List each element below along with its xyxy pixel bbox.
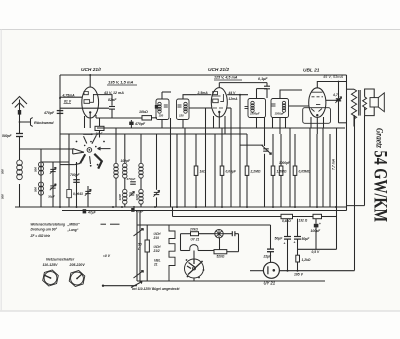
wire mid vertical x290	[289, 128, 291, 207]
wire mid horizontal y134	[60, 133, 247, 135]
mains selector knob B	[69, 271, 85, 287]
wire mid vertical x330	[329, 134, 331, 207]
svg-text:110-125V: 110-125V	[43, 263, 59, 267]
IF transformer T1 box B	[177, 99, 190, 120]
lamp drop	[219, 238, 221, 250]
svg-text:27kΩ: 27kΩ	[189, 227, 198, 231]
page left edge shading	[0, 30, 2, 312]
capacitor 0,1uF	[264, 85, 270, 87]
tube3 bottom box	[303, 108, 331, 124]
IF transformer T2 box B	[271, 99, 289, 118]
band switch S1 arm SW	[80, 154, 85, 163]
page top edge rule	[0, 29, 400, 31]
svg-text:81 V: 81 V	[64, 100, 72, 104]
band switch S1 contact dots	[76, 141, 78, 143]
capacitor T1a	[164, 104, 168, 106]
wire mid horizontal y128	[97, 127, 345, 129]
resistor R x295	[293, 166, 297, 175]
mains link arrow	[131, 282, 142, 288]
wire chassis bus upper	[15, 206, 347, 208]
svg-text:+: +	[284, 242, 286, 246]
IF transformer T2 coil B	[282, 101, 285, 104]
svg-text:1500pF: 1500pF	[275, 112, 285, 116]
svg-text:0,0643: 0,0643	[73, 192, 83, 196]
resistor R x222	[220, 166, 224, 175]
band switch S1 arrow	[98, 147, 111, 150]
capacitor 470pF c	[130, 181, 136, 183]
voltage selector disc	[185, 259, 204, 278]
inductor L-ant2 x116	[114, 163, 118, 167]
svg-text:UCH 21/2: UCH 21/2	[208, 67, 229, 73]
wire mid vertical x215	[214, 134, 216, 207]
wire osc horizontal y149	[20, 148, 75, 150]
svg-text:UY 21: UY 21	[264, 281, 276, 286]
wire tube3 pin mid	[316, 117, 318, 134]
capacitor T1 blob	[155, 105, 158, 109]
svg-text:100pF: 100pF	[121, 159, 132, 163]
band switch S1 left funnel	[73, 149, 84, 153]
mains switch arrow 1	[134, 229, 144, 237]
wire T2a top	[256, 89, 258, 99]
UY21 loop left	[180, 234, 182, 251]
svg-text:Rückwand: Rückwand	[34, 120, 54, 125]
svg-text:„Lang“: „Lang“	[67, 228, 79, 232]
svg-text:0,4kΩ: 0,4kΩ	[282, 219, 291, 223]
transformer output core	[358, 90, 360, 116]
power box outline	[137, 211, 325, 281]
wire mid vertical x323	[322, 128, 324, 207]
bus junction dots	[59, 206, 61, 208]
wire T1b bottom	[182, 120, 184, 129]
svg-text:12mA: 12mA	[229, 97, 239, 101]
svg-text:21/I: 21/I	[153, 236, 160, 240]
inductor antenna coil	[17, 160, 23, 166]
band switch S1 arm SE	[94, 154, 102, 169]
wire tube2 pin mid	[218, 113, 220, 128]
mains selector knob A	[43, 270, 59, 286]
wire selector down	[193, 278, 195, 281]
svg-text:UY 21: UY 21	[191, 238, 200, 242]
wire y216 left	[173, 216, 282, 218]
band switch S1 rotor	[87, 148, 92, 153]
wire tube1 pin mid	[89, 114, 91, 129]
IF transformer T2 box A	[248, 99, 266, 118]
svg-text:7,7 mA: 7,7 mA	[331, 158, 335, 170]
svg-text:54 GW/KM: 54 GW/KM	[370, 151, 390, 223]
wire T1b top	[183, 95, 196, 99]
wire coil x116	[115, 128, 117, 164]
IF transformer T1 coil B	[184, 102, 187, 105]
svg-text:1500pF: 1500pF	[250, 112, 260, 116]
node xfmr bottom	[354, 126, 356, 128]
wire B+ top rail	[60, 74, 347, 76]
wire tube2 anode	[218, 83, 220, 88]
wire Rueckwand tap	[20, 118, 33, 127]
wire arm SW feed	[60, 164, 75, 166]
svg-text:165 V: 165 V	[294, 272, 304, 276]
UY21 loop top c	[223, 233, 232, 235]
transformer output primary	[351, 89, 356, 119]
capacitor T2a	[245, 106, 249, 108]
band switch S1 spoke S	[89, 156, 92, 164]
svg-text:470pF: 470pF	[43, 111, 55, 115]
resistor 132	[313, 214, 322, 218]
IF transformer T2 coil A	[251, 101, 254, 104]
wire tube2 pin left	[213, 116, 215, 128]
inductor L x141 lower	[139, 189, 143, 193]
band switch S1 spoke NE	[92, 135, 97, 144]
svg-text:Graetz: Graetz	[375, 128, 385, 148]
wire 700pF vertical	[76, 162, 78, 207]
svg-text:500: 500	[1, 194, 5, 199]
antenna series blob	[18, 110, 21, 115]
svg-text:+: +	[294, 241, 296, 245]
wire tube2 k right	[227, 107, 231, 109]
wire tube3 pin right	[323, 117, 325, 128]
svg-text:Drehung um 90°: Drehung um 90°	[31, 227, 58, 231]
wire tube1 grid left	[60, 96, 82, 98]
wire knob link	[103, 285, 137, 287]
svg-text:205-220V: 205-220V	[69, 263, 86, 267]
wire speaker return vertical	[364, 116, 366, 206]
capacitor trimmer mid	[154, 191, 159, 193]
resistor 10k	[142, 116, 152, 120]
wire cathode y108	[60, 107, 109, 109]
wire UY21 mid	[270, 252, 272, 262]
UY21 loop right	[235, 233, 239, 235]
wire secondary bottom	[365, 107, 375, 116]
wire 10k to IF1	[152, 117, 158, 119]
svg-text:470pF: 470pF	[126, 177, 136, 181]
svg-text:50µF: 50µF	[302, 237, 311, 241]
wire switch left feed	[60, 148, 73, 150]
wire antenna coil to bus	[19, 184, 21, 207]
svg-text:150: 150	[159, 114, 164, 118]
svg-text:1,2kΩ: 1,2kΩ	[302, 258, 311, 262]
svg-text:520Ω: 520Ω	[217, 255, 225, 259]
inductor L x141 upper	[139, 163, 143, 167]
resistor R x247	[245, 166, 249, 175]
rectifier UY21 disc	[263, 262, 279, 278]
wire coil x141	[140, 134, 142, 164]
wire 65V horizontal	[298, 248, 337, 250]
svg-text:bei 110-125V Bügel umgesteckt: bei 110-125V Bügel umgesteckt	[132, 287, 180, 291]
wire tube1 pin right	[95, 115, 97, 118]
svg-text:+: +	[319, 222, 321, 226]
wire mid vertical x317	[316, 134, 318, 207]
resistor R x196	[194, 166, 198, 175]
svg-text:700pF: 700pF	[70, 173, 81, 177]
svg-text:1000: 1000	[135, 194, 139, 201]
wire T1a bottom	[161, 120, 163, 129]
capacitor lamp series	[231, 231, 233, 236]
svg-text:44 V: 44 V	[228, 91, 237, 95]
tube UCH21/II envelope	[211, 88, 227, 117]
svg-text:1,5MΩ: 1,5MΩ	[277, 170, 287, 174]
wire row y120	[96, 117, 142, 119]
mains switch arrow 2	[134, 271, 144, 279]
svg-text:0,05MΩ: 0,05MΩ	[299, 170, 311, 174]
IF transformer T1 box A	[156, 99, 169, 120]
transformer output secondary	[363, 97, 367, 110]
resistor R x273	[271, 166, 275, 175]
UY21 loop top a	[181, 233, 191, 235]
resistor 1,2k	[296, 255, 300, 262]
wire T2b top	[280, 90, 302, 99]
svg-text:2,2MΩ: 2,2MΩ	[250, 170, 261, 174]
svg-text:1000: 1000	[118, 194, 122, 201]
wire mid vertical x240	[239, 95, 241, 207]
svg-text:Ω: Ω	[137, 247, 141, 251]
page bottom edge rule	[0, 310, 400, 312]
wire trimmer3 vertical	[87, 186, 89, 207]
wire antenna down	[19, 137, 21, 161]
UY21 heater loop	[190, 245, 198, 251]
svg-text:132 Ω: 132 Ω	[299, 218, 308, 222]
wire 0,1uF vertical	[266, 83, 268, 87]
node lamp cap	[235, 233, 237, 235]
resistor 50ohm	[145, 240, 149, 252]
wire mid vertical x247	[246, 134, 248, 166]
inductor L x125 upper	[123, 163, 127, 167]
svg-text:Netzumschalter: Netzumschalter	[46, 258, 75, 262]
wire secondary top	[365, 89, 375, 98]
wire tube1 g2 right	[93, 95, 112, 106]
wire 82pF down	[111, 109, 113, 118]
wire right vertical x345	[346, 75, 348, 211]
capacitor 470pF ant-coupling	[57, 110, 64, 112]
wire tube1 pin left	[84, 116, 86, 128]
svg-text:500: 500	[34, 167, 38, 172]
wire heater row drop	[172, 207, 174, 217]
svg-text:500pF: 500pF	[2, 134, 13, 138]
tube UCH21/II internals	[213, 92, 224, 109]
wire UY21 top	[270, 225, 272, 249]
capacitor trimmer 4,7	[336, 98, 341, 100]
wire UY21 bottom	[250, 270, 263, 272]
svg-text:UCH 21/I: UCH 21/I	[81, 67, 101, 73]
resistor 0,0643	[67, 190, 72, 198]
svg-text:50µF: 50µF	[275, 236, 284, 240]
capacitor 700pF	[73, 179, 80, 181]
wire coil x125	[124, 134, 126, 164]
wire mid vertical x196	[195, 134, 197, 166]
svg-text:Wellenschalterstellung: Wellenschalterstellung	[31, 223, 66, 227]
wire output B+ vertical x354	[354, 115, 356, 270]
wire mid vertical x177	[176, 134, 178, 207]
capacitor T1b	[178, 104, 182, 106]
capacitor trimmer C-osc2	[50, 185, 55, 187]
inductor L2	[39, 162, 44, 167]
wire mid vertical x205	[205, 108, 207, 207]
wire left column vertical	[59, 75, 61, 207]
tube UCH21/I envelope	[82, 87, 99, 118]
UY21 loop bottom	[181, 250, 190, 252]
svg-text:47µF: 47µF	[87, 211, 97, 215]
resistor 0,4k	[281, 214, 293, 218]
wire tube3 anode	[317, 82, 346, 88]
svg-text:21/2: 21/2	[153, 249, 160, 253]
svg-text:82pF: 82pF	[108, 98, 117, 102]
wire 165V line	[279, 270, 354, 272]
resistor padding box above switch	[95, 126, 104, 130]
wire primary top	[347, 88, 355, 90]
tube UBL21 internals	[311, 92, 323, 111]
wire mid vertical x310	[309, 128, 311, 207]
svg-text:0,1µF: 0,1µF	[258, 77, 268, 81]
capacitor trimmer small	[129, 192, 134, 194]
UY21 loop top b	[199, 233, 215, 235]
wire trimmer right	[338, 82, 340, 99]
wire tube3 grid feed	[289, 105, 309, 107]
svg-text:0,5 V: 0,5 V	[312, 250, 320, 254]
capacitor antenna 500pF	[16, 133, 23, 135]
wire T2b bottom	[272, 118, 274, 129]
capacitor 1000pF	[279, 166, 283, 175]
dial lamp	[215, 230, 223, 238]
wire y216 mid	[293, 216, 314, 218]
capacitor trimmer C-osc1	[50, 168, 55, 170]
wire mid vertical x170	[170, 118, 172, 207]
wire mid vertical x273	[272, 134, 274, 166]
svg-text:≈0 V: ≈0 V	[103, 254, 111, 258]
svg-text:500: 500	[1, 169, 5, 174]
svg-text:500: 500	[34, 187, 38, 192]
power box inner left	[139, 211, 141, 281]
svg-text:30pF: 30pF	[48, 195, 55, 199]
wire pot column top	[264, 118, 266, 147]
node tube1 grid junction	[59, 97, 61, 99]
capacitor 47uF blob 2	[131, 208, 134, 212]
resistor 520	[214, 250, 227, 254]
IF transformer T1 coil A	[158, 102, 161, 105]
capacitor 2uF	[267, 248, 274, 250]
svg-text:21: 21	[153, 263, 158, 267]
wire mid vertical x231	[230, 108, 232, 207]
wire primary bottom	[353, 115, 355, 126]
inductor L3	[39, 182, 44, 187]
svg-text:50: 50	[138, 243, 142, 247]
tube UCH21/I internals	[84, 92, 93, 104]
speaker LS	[370, 98, 378, 107]
svg-text:4,75mA: 4,75mA	[62, 93, 76, 97]
node antenna tap	[19, 121, 21, 123]
switch pos dash 2	[110, 223, 120, 225]
wire mid vertical x185	[184, 128, 186, 207]
capacitor 100uF	[314, 224, 319, 228]
wire tube2 g2 right	[227, 94, 248, 96]
volume pot 0,05M trim	[240, 144, 263, 146]
wire trimmer mid	[156, 134, 158, 190]
svg-text:1000pF: 1000pF	[279, 161, 291, 165]
switch pos dash 1	[101, 223, 107, 225]
svg-text:„Mittel“: „Mittel“	[67, 223, 81, 227]
capacitor blob anode	[337, 99, 341, 102]
wire mid vertical x336	[336, 128, 338, 249]
capacitor 50uF a	[287, 219, 289, 237]
wire mid vertical x222	[221, 128, 223, 166]
wire chassis bus lower	[62, 210, 347, 212]
capacitor 470pF blob	[129, 122, 133, 125]
capacitor 50uF b	[297, 219, 299, 237]
svg-text:135 V, 1,5 mA: 135 V, 1,5 mA	[108, 80, 134, 85]
capacitor 82pF	[109, 106, 115, 108]
wire tube3 pin left	[310, 117, 312, 128]
svg-text:ZF = 452 kHz: ZF = 452 kHz	[30, 234, 51, 238]
capacitor 47uF blob on bus	[83, 209, 87, 213]
resistor 27k	[191, 232, 199, 236]
heater chain	[169, 225, 175, 281]
svg-text:470pF: 470pF	[134, 122, 146, 126]
svg-text:45 V, 53mA: 45 V, 53mA	[323, 74, 343, 79]
wire T2a bottom	[256, 118, 258, 129]
svg-text:100µF: 100µF	[311, 229, 322, 233]
wire osc horizontal y162	[41, 161, 69, 163]
wire tube1 anode	[89, 75, 91, 87]
capacitor T2b	[272, 103, 276, 105]
wire osc vertical x53	[52, 162, 54, 207]
band switch S1 spoke NW	[84, 136, 87, 143]
antenna	[12, 97, 27, 134]
svg-text:125 V, 4,5 mA: 125 V, 4,5 mA	[214, 76, 238, 80]
wire y216 right	[322, 216, 337, 218]
wire osc vertical x41	[40, 149, 42, 207]
wire tube2 pin right	[224, 116, 226, 134]
wire padding box up	[99, 118, 101, 126]
svg-text:UBL 21: UBL 21	[303, 68, 320, 74]
tube UBL21 envelope	[309, 88, 326, 118]
inductor L x125 lower	[123, 189, 127, 193]
wire T1a top	[161, 92, 163, 99]
wire selector up	[193, 251, 195, 260]
capacitor trimmer C-osc3	[85, 190, 90, 192]
svg-text:10kΩ: 10kΩ	[139, 110, 148, 114]
svg-text:150: 150	[179, 114, 184, 118]
wire tube2 grid left	[196, 94, 211, 96]
